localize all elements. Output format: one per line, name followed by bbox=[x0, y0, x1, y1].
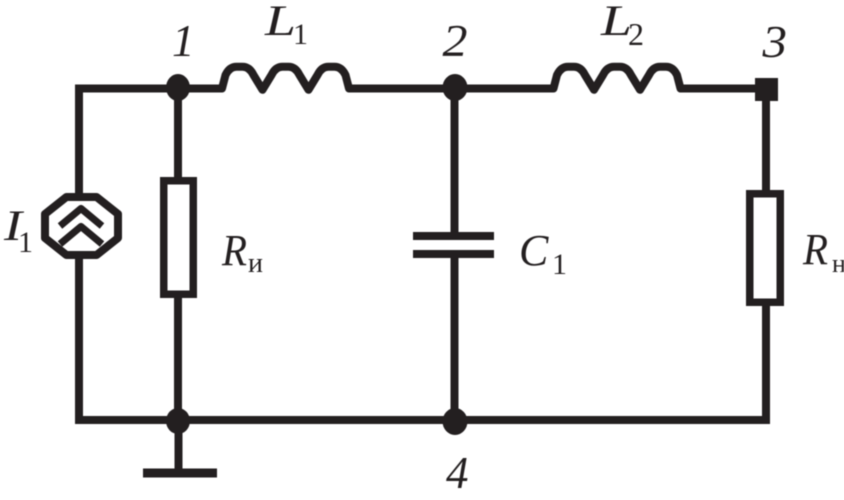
svg-text:1: 1 bbox=[552, 248, 567, 281]
svg-text:2: 2 bbox=[443, 16, 468, 66]
svg-text:н: н bbox=[832, 249, 844, 278]
svg-text:C: C bbox=[519, 226, 549, 275]
svg-text:2: 2 bbox=[628, 16, 644, 52]
svg-text:и: и bbox=[248, 248, 263, 279]
svg-text:L: L bbox=[264, 0, 296, 45]
svg-text:R: R bbox=[802, 225, 828, 274]
svg-text:R: R bbox=[221, 226, 247, 275]
svg-text:1: 1 bbox=[293, 18, 308, 51]
svg-text:1: 1 bbox=[172, 16, 195, 66]
svg-text:3: 3 bbox=[761, 17, 787, 67]
svg-text:1: 1 bbox=[18, 226, 33, 259]
svg-text:4: 4 bbox=[446, 448, 469, 498]
